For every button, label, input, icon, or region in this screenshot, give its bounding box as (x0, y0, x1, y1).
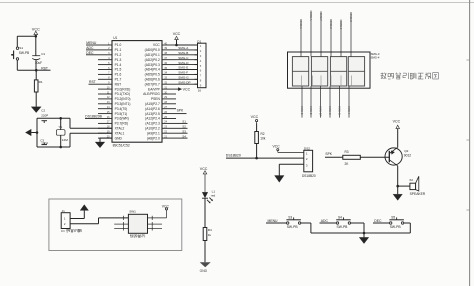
net SMG-C wire (176, 56, 198, 60)
svg-text:R4: R4 (208, 228, 212, 232)
net MENU (86, 41, 98, 45)
svg-text:VCC: VCC (273, 145, 281, 149)
svg-text:S4: S4 (182, 134, 186, 138)
wire XTAL2 (70, 118, 112, 128)
svg-text:RST: RST (89, 80, 96, 84)
svg-text:P3.1(TXD): P3.1(TXD) (115, 92, 130, 96)
digit cell 1 (292, 57, 308, 86)
svg-text:P3.4(T0): P3.4(T0) (115, 107, 128, 111)
node xtal-gnd (36, 131, 39, 134)
svg-text:P1.6: P1.6 (115, 73, 122, 77)
wire R3 to base (360, 156, 389, 158)
net SPK mcu (176, 109, 187, 114)
wire collector down (397, 166, 399, 194)
svg-text:DEC: DEC (86, 51, 94, 55)
capacitor C3 220P (40, 138, 48, 145)
resistor R4 1k (203, 228, 212, 263)
wire vcc to switch branch (17, 36, 36, 47)
svg-text:DS18B20: DS18B20 (226, 154, 241, 158)
svg-text:SMG-F: SMG-F (178, 71, 188, 75)
wire trace in digit (340, 76, 342, 87)
svg-text:(AD5)P0.5: (AD5)P0.5 (145, 73, 160, 77)
resistor R1 (34, 70, 42, 107)
switch right pin2 (148, 222, 163, 226)
speaker X2 SPEAKER (409, 176, 426, 196)
svg-text:ADC: ADC (86, 46, 94, 50)
switch S1 SW-PB (11, 46, 29, 60)
svg-text:SPEAKER: SPEAKER (410, 192, 426, 196)
net ADC left (86, 46, 98, 50)
svg-text:GND: GND (200, 269, 208, 273)
label SMG-3 (371, 52, 380, 56)
wire S4 to gnd (351, 223, 364, 237)
svg-text:(A8)P2.0: (A8)P2.0 (147, 136, 160, 140)
svg-text:SMG-E: SMG-E (300, 106, 304, 115)
power VCC DS2 (273, 145, 281, 153)
switch S5 SW-PB (389, 215, 404, 228)
svg-text:VCC: VCC (173, 32, 181, 36)
svg-text:P3.0(RXD): P3.0(RXD) (115, 87, 131, 91)
svg-text:S3: S3 (182, 129, 186, 133)
ground DS2 (275, 176, 285, 183)
text DC power interface (61, 229, 82, 233)
switch left pin3 (114, 226, 128, 230)
svg-text:(A9)P2.1: (A9)P2.1 (147, 131, 160, 135)
wire display bottom 2 (309, 86, 313, 118)
svg-text:S2: S2 (182, 124, 186, 128)
wire display top 5 (339, 20, 343, 57)
svg-text:1k: 1k (208, 233, 212, 237)
svg-text:VCC: VCC (393, 119, 401, 123)
svg-text:red: red (211, 194, 216, 198)
net S3 wire (176, 129, 188, 133)
svg-text:SMG-D: SMG-D (309, 106, 313, 115)
ground R1 (31, 107, 41, 113)
svg-text:VCC: VCC (153, 43, 161, 47)
net SMG-F wire (176, 71, 198, 75)
net S4 wire (176, 134, 188, 138)
node reset-top (35, 35, 38, 38)
svg-text:R3: R3 (345, 150, 349, 154)
svg-text:(A11)P2.3: (A11)P2.3 (145, 122, 160, 126)
sheet border top edge (0, 2, 474, 4)
ground GND L1 (200, 262, 211, 273)
node crystal top (59, 117, 62, 120)
svg-text:SPK: SPK (177, 109, 184, 113)
transistor Q2 9012 (385, 147, 411, 166)
svg-text:9012: 9012 (404, 153, 412, 157)
connector J1 DC (61, 209, 70, 229)
net DS18B20 data wire (226, 154, 304, 159)
svg-text:P3.2(INT0): P3.2(INT0) (115, 97, 131, 101)
svg-text:C1: C1 (41, 52, 45, 56)
digit cell 3 (330, 57, 346, 86)
svg-text:(A13)P2.5: (A13)P2.5 (145, 112, 160, 116)
svg-text:DS2: DS2 (304, 146, 310, 150)
svg-text:ALE/PROG: ALE/PROG (143, 92, 160, 96)
ground buttons (359, 237, 369, 243)
net DEC left (86, 51, 98, 55)
svg-text:SMG-A: SMG-A (178, 46, 189, 50)
wire xtal left (36, 118, 38, 147)
net DEC wire btn (373, 219, 390, 223)
svg-text:J1: J1 (62, 209, 66, 213)
svg-text:S4: S4 (338, 215, 342, 219)
diode LED L1 red (202, 190, 216, 204)
svg-text:(A14)P2.6: (A14)P2.6 (145, 107, 160, 111)
label SMG-4 (371, 55, 380, 59)
wire trace in digit (312, 76, 314, 87)
wire display bottom 5 (337, 86, 341, 118)
svg-text:P3.6(WR): P3.6(WR) (115, 117, 129, 121)
display module box (288, 52, 371, 88)
node pin40 vcc (175, 44, 178, 47)
power VCC Q2 (393, 119, 401, 128)
svg-text:SMG-F: SMG-F (319, 13, 323, 22)
connector D1 (195, 39, 207, 92)
wire DS2 pin1 (278, 151, 304, 153)
svg-text:220P: 220P (41, 114, 48, 118)
switch left pin1 tick (122, 216, 124, 220)
wire J1 pin2 to switch (70, 218, 128, 224)
wire MCU GND pin (100, 138, 112, 142)
power VCC R2 (251, 115, 259, 123)
svg-text:D1: D1 (197, 39, 201, 43)
net SMG-D wire (176, 61, 198, 65)
net SMG-G wire (176, 75, 198, 79)
svg-text:SMG-4: SMG-4 (347, 106, 351, 115)
wire L1 to R4 (204, 198, 206, 227)
svg-text:(AD7)P0.7: (AD7)P0.7 (145, 82, 160, 86)
svg-text:SW1: SW1 (129, 210, 136, 214)
power VCC mcu pin40 (173, 32, 181, 45)
svg-text:P1.1: P1.1 (115, 48, 122, 52)
svg-text:R2: R2 (261, 132, 265, 136)
wire display bottom 3 (318, 86, 322, 118)
svg-text:SMG-DP: SMG-DP (178, 80, 190, 84)
power VCC L1 (200, 167, 208, 192)
wire S5 to rail (404, 223, 411, 233)
capacitor C1 10uF (32, 52, 45, 65)
wire DS2 pin3 gnd (279, 164, 304, 175)
svg-text:XTAL2: XTAL2 (115, 126, 125, 130)
node rail gnd (363, 232, 366, 235)
digit cell 4 (348, 57, 364, 86)
svg-text:Y1: Y1 (58, 125, 62, 129)
wire display bottom 4 (328, 86, 332, 118)
wire RST right (36, 69, 50, 71)
svg-text:(AD3)P0.3: (AD3)P0.3 (145, 63, 160, 67)
power VCC reset (32, 28, 40, 37)
switch left pin2 (114, 222, 128, 226)
wire J1 pin1 to arrow (70, 210, 84, 218)
svg-text:SMG-DP: SMG-DP (318, 106, 322, 117)
power VCC EA pin31 (176, 87, 191, 91)
svg-text:SMG-G: SMG-G (337, 106, 341, 115)
crystal Y1 12M (56, 118, 68, 147)
switch S3 SW-PB (286, 215, 301, 228)
net SMG-E wire (176, 66, 198, 70)
wire trace in digit (330, 76, 332, 87)
svg-text:P3.3(INT1): P3.3(INT1) (115, 102, 131, 106)
mcu U1 89C51/C52 (98, 36, 176, 148)
svg-text:(A15)P2.7: (A15)P2.7 (145, 102, 160, 106)
wire S3 to rail (301, 223, 311, 233)
svg-text:XTAL1: XTAL1 (115, 131, 125, 135)
svg-text:DS18B20: DS18B20 (302, 174, 316, 178)
svg-text:SMG-B: SMG-B (349, 14, 353, 23)
node crystal bottom (59, 146, 62, 149)
svg-text:(AD4)P0.4: (AD4)P0.4 (145, 68, 160, 72)
svg-text:VCC: VCC (200, 167, 208, 171)
wire display bottom 1 (300, 86, 304, 118)
svg-text:S3: S3 (288, 215, 292, 219)
svg-text:SMG-A: SMG-A (309, 12, 313, 21)
svg-text:SW-PB: SW-PB (390, 225, 402, 229)
resistor R3 2K (343, 150, 361, 166)
ground MCU (95, 142, 105, 148)
wire vcc to C1 (35, 36, 37, 70)
ground Q2 (393, 194, 402, 200)
connector DS2 DS18B20 (302, 146, 316, 177)
net MENU wire btn (266, 219, 287, 223)
wire display top 1 (299, 19, 303, 57)
svg-text:P1.4: P1.4 (115, 63, 122, 67)
svg-text:SW-PB: SW-PB (19, 51, 29, 55)
svg-text:VCC: VCC (251, 115, 259, 119)
wire emitter to vcc (397, 129, 399, 148)
svg-text:P1.3: P1.3 (115, 58, 122, 62)
node R2 data (255, 157, 258, 160)
svg-text:10uF: 10uF (35, 61, 42, 65)
svg-text:S1: S1 (19, 46, 23, 50)
svg-text:SMG-D: SMG-D (178, 61, 189, 65)
svg-text:(A10)P2.2: (A10)P2.2 (145, 126, 160, 130)
svg-text:VCC: VCC (183, 87, 191, 91)
switch right pin1 vcc (148, 205, 170, 220)
switch S4 SW-PB (336, 215, 351, 228)
svg-text:SW-PB: SW-PB (287, 225, 299, 229)
svg-text:P1.2: P1.2 (115, 53, 122, 57)
svg-text:C2: C2 (41, 109, 45, 113)
svg-text:(AD6)P0.6: (AD6)P0.6 (145, 77, 160, 81)
wire pin40 to D1 (176, 44, 198, 46)
svg-text:EA/VPP: EA/VPP (148, 87, 160, 91)
svg-text:SMG-G: SMG-G (178, 75, 189, 79)
wire rail (311, 232, 410, 234)
wire to speaker (398, 185, 410, 187)
svg-text:SMG-1: SMG-1 (299, 21, 303, 30)
net RST mcu (89, 80, 99, 84)
svg-text:SMG-2: SMG-2 (329, 21, 333, 30)
svg-text:DS18B20B: DS18B20B (85, 115, 102, 119)
wire display top 2 (309, 11, 313, 57)
svg-text:SMG-3: SMG-3 (339, 21, 343, 30)
svg-text:89C51/C52: 89C51/C52 (113, 143, 130, 147)
svg-text:RST: RST (115, 82, 122, 86)
svg-text:SPK: SPK (325, 152, 332, 156)
switch SW1 self-lock (128, 210, 147, 238)
svg-text:(AD1)P0.1: (AD1)P0.1 (145, 53, 160, 57)
svg-text:(AD0)P0.0: (AD0)P0.0 (145, 48, 160, 52)
net SMG-B wire (176, 51, 198, 55)
wire xtal bottom (37, 146, 70, 148)
node speaker (396, 185, 399, 188)
capacitor C2 220P (41, 109, 48, 124)
svg-text:10k: 10k (260, 136, 266, 140)
svg-text:P3.5(T1): P3.5(T1) (115, 112, 128, 116)
svg-text:S1: S1 (182, 120, 186, 124)
net ADC wire btn (320, 219, 337, 223)
wire display bottom 6 (347, 86, 351, 118)
svg-text:P1.7: P1.7 (115, 77, 122, 81)
wire xtal top (37, 117, 70, 119)
wire trace in digit (351, 76, 353, 87)
net DS18B20B (85, 115, 103, 119)
svg-text:X2: X2 (409, 178, 413, 182)
svg-text:R1: R1 (39, 80, 43, 84)
net S1 wire (176, 120, 188, 124)
svg-text:(AD2)P0.2: (AD2)P0.2 (145, 58, 160, 62)
power arrow up (80, 205, 88, 211)
resistor R2 10k (255, 123, 266, 158)
svg-text:P1.5: P1.5 (115, 68, 122, 72)
svg-text:MENU: MENU (86, 41, 97, 45)
svg-text:SMG-C: SMG-C (328, 106, 332, 115)
wire switch to rst (17, 60, 36, 70)
svg-text:S5: S5 (391, 215, 395, 219)
wire display top 3 (319, 11, 323, 56)
ground crystal left (25, 129, 37, 136)
svg-text:P1.0: P1.0 (115, 43, 122, 47)
svg-text:SMG-E: SMG-E (178, 66, 188, 70)
digit cell 2 (311, 57, 327, 86)
sheet border right edge (467, 0, 471, 286)
node RST (35, 66, 48, 71)
net SMG-DP wire (176, 80, 198, 84)
svg-text:VCC: VCC (162, 205, 170, 209)
wire display top 4 (329, 19, 333, 57)
svg-text:12M: 12M (62, 138, 68, 142)
wire trace in digit (320, 76, 322, 87)
svg-text:GND: GND (115, 136, 123, 140)
wire XTAL1 (70, 133, 112, 147)
svg-text:PSEN: PSEN (151, 97, 161, 101)
svg-text:SMG-4: SMG-4 (371, 55, 380, 59)
wire trace in digit (301, 76, 303, 87)
wire display top 6 (349, 12, 353, 57)
svg-text:Q2: Q2 (404, 149, 408, 153)
svg-text:(A12)P2.4: (A12)P2.4 (145, 117, 160, 121)
net SMG-A wire (176, 46, 198, 50)
text 7seg pin front view caption (381, 73, 439, 79)
power module frame (49, 199, 182, 251)
net SPK wire (325, 152, 343, 157)
svg-text:16: 16 (198, 88, 202, 92)
svg-text:SMG-B: SMG-B (178, 51, 188, 55)
net S2 wire (176, 124, 188, 128)
switch right pin3 (148, 226, 163, 230)
svg-text:SW-PB: SW-PB (337, 225, 349, 229)
svg-text:SMG-C: SMG-C (178, 56, 189, 60)
svg-text:U1: U1 (113, 36, 117, 40)
svg-text:P3.7(RD): P3.7(RD) (115, 122, 129, 126)
